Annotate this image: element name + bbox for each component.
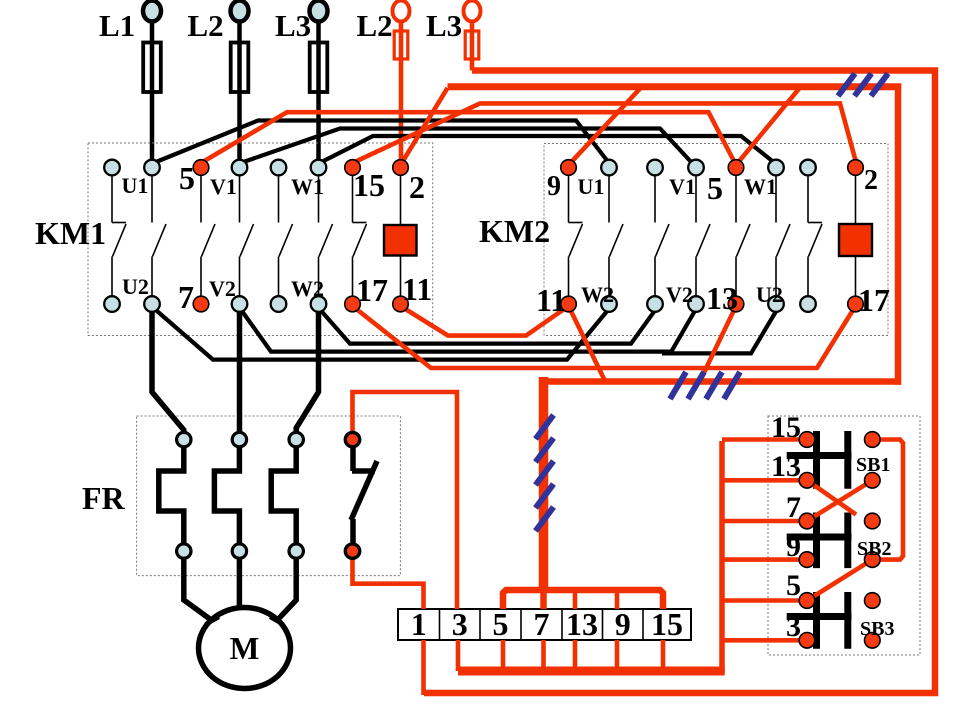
svg-text:W2: W2 bbox=[291, 276, 324, 301]
svg-text:9: 9 bbox=[786, 530, 801, 563]
svg-text:5: 5 bbox=[707, 170, 723, 206]
svg-text:11: 11 bbox=[536, 282, 566, 318]
svg-text:FR: FR bbox=[82, 480, 126, 516]
svg-text:U1: U1 bbox=[578, 174, 605, 199]
svg-text:L1: L1 bbox=[99, 8, 135, 43]
svg-text:13: 13 bbox=[706, 280, 738, 316]
svg-text:2: 2 bbox=[864, 165, 878, 196]
svg-text:7: 7 bbox=[786, 491, 801, 524]
svg-text:7: 7 bbox=[178, 279, 194, 315]
svg-text:9: 9 bbox=[547, 171, 561, 202]
svg-text:SB2: SB2 bbox=[857, 538, 891, 560]
svg-text:V2: V2 bbox=[209, 276, 236, 301]
svg-text:15: 15 bbox=[771, 411, 801, 444]
svg-text:SB1: SB1 bbox=[856, 454, 890, 476]
svg-text:M: M bbox=[230, 631, 260, 666]
svg-text:U1: U1 bbox=[122, 173, 149, 198]
svg-text:17: 17 bbox=[858, 282, 890, 318]
svg-text:W2: W2 bbox=[581, 282, 614, 307]
svg-text:L3: L3 bbox=[426, 8, 462, 43]
svg-text:V1: V1 bbox=[669, 174, 696, 199]
svg-text:V1: V1 bbox=[210, 174, 237, 199]
svg-text:11: 11 bbox=[402, 271, 432, 307]
svg-text:3: 3 bbox=[786, 610, 801, 643]
svg-text:13: 13 bbox=[566, 606, 598, 642]
svg-text:L2: L2 bbox=[188, 8, 224, 43]
svg-text:5: 5 bbox=[786, 569, 801, 602]
svg-text:3: 3 bbox=[452, 606, 468, 642]
svg-text:L2: L2 bbox=[357, 8, 393, 43]
svg-text:W1: W1 bbox=[744, 174, 777, 199]
svg-text:7: 7 bbox=[534, 606, 550, 642]
svg-text:V2: V2 bbox=[666, 282, 693, 307]
svg-text:L3: L3 bbox=[275, 8, 311, 43]
svg-text:2: 2 bbox=[409, 169, 425, 205]
svg-text:KM2: KM2 bbox=[479, 213, 550, 249]
svg-text:5: 5 bbox=[493, 606, 509, 642]
svg-text:W1: W1 bbox=[291, 174, 324, 199]
svg-text:U2: U2 bbox=[122, 274, 149, 299]
svg-text:17: 17 bbox=[356, 272, 388, 308]
svg-text:9: 9 bbox=[615, 606, 631, 642]
svg-text:5: 5 bbox=[179, 160, 195, 196]
svg-text:1: 1 bbox=[411, 606, 427, 642]
svg-text:13: 13 bbox=[771, 450, 801, 483]
svg-text:15: 15 bbox=[651, 606, 683, 642]
svg-text:SB3: SB3 bbox=[860, 618, 894, 640]
svg-text:15: 15 bbox=[353, 167, 385, 203]
svg-text:KM1: KM1 bbox=[35, 215, 106, 251]
svg-text:U2: U2 bbox=[756, 282, 783, 307]
